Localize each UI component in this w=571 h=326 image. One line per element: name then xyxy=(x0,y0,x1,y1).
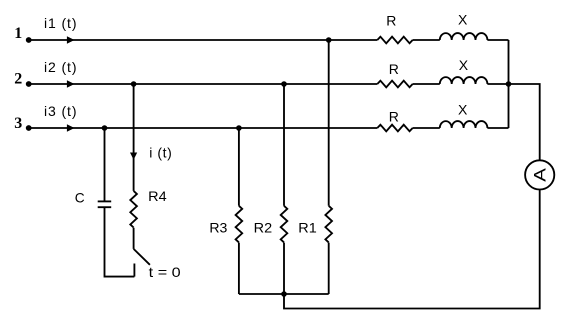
svg-text:C: C xyxy=(75,190,85,206)
svg-text:i3 (t): i3 (t) xyxy=(44,103,77,119)
svg-text:R3: R3 xyxy=(209,219,227,235)
svg-text:i1 (t): i1 (t) xyxy=(44,15,77,31)
svg-text:1: 1 xyxy=(14,25,22,42)
svg-text:i (t): i (t) xyxy=(149,145,172,161)
svg-text:R: R xyxy=(386,12,396,28)
svg-text:i2 (t): i2 (t) xyxy=(44,59,77,75)
svg-text:t = 0: t = 0 xyxy=(149,264,181,280)
svg-text:X: X xyxy=(458,12,468,28)
svg-text:2: 2 xyxy=(14,70,22,87)
svg-text:R: R xyxy=(389,109,399,125)
svg-text:R2: R2 xyxy=(254,219,273,235)
svg-text:R1: R1 xyxy=(298,219,317,235)
svg-text:R4: R4 xyxy=(148,188,167,204)
svg-text:X: X xyxy=(458,102,468,118)
svg-text:A: A xyxy=(530,168,549,182)
svg-text:X: X xyxy=(459,57,469,73)
svg-text:3: 3 xyxy=(14,115,22,132)
svg-text:R: R xyxy=(389,61,399,77)
